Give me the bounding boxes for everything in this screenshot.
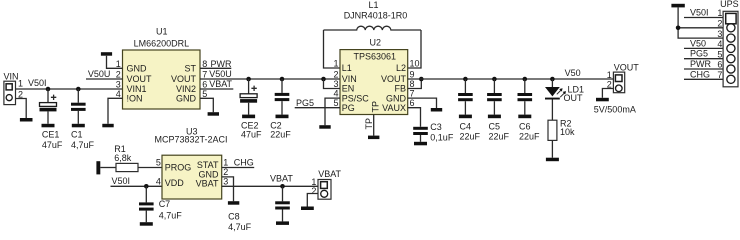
node junction UPS pin2 <box>676 26 681 31</box>
svg-text:PWR: PWR <box>211 59 232 69</box>
svg-text:VBAT: VBAT <box>270 174 293 184</box>
svg-text:8: 8 <box>202 59 207 69</box>
wire UPS pin7 stub (net CHG) <box>684 78 723 80</box>
svg-text:C7: C7 <box>159 199 171 209</box>
wire U2 pin7 GND to ground <box>408 98 437 108</box>
svg-text:0,1uF: 0,1uF <box>430 132 454 142</box>
op-amp U1 LM66200DRL power mux <box>123 27 201 110</box>
svg-text:4: 4 <box>333 88 338 98</box>
svg-text:ST: ST <box>184 64 196 74</box>
svg-text:CHG: CHG <box>234 158 254 168</box>
capacitor C1 4,7uF <box>71 89 95 150</box>
svg-text:V50I: V50I <box>28 78 47 88</box>
resistor R2 10k <box>548 100 575 158</box>
svg-text:VOUT: VOUT <box>614 62 640 72</box>
wire UPS pin6 stub (net PWR) <box>684 68 723 70</box>
svg-text:10k: 10k <box>560 127 575 137</box>
svg-text:VOUT: VOUT <box>127 74 153 84</box>
wire L1 right to U2 pin10 <box>408 30 421 68</box>
connector VIN (X1) <box>4 72 24 105</box>
node junction C7 <box>144 184 149 189</box>
svg-text:6: 6 <box>717 60 722 70</box>
svg-text:4: 4 <box>717 39 722 49</box>
op-amp U2 TPS63061 buck-boost converter <box>340 37 408 114</box>
ground (U3 pin2) <box>228 201 239 205</box>
node junction U2 VIN <box>321 77 326 82</box>
wire U1 pin5 GND to ground <box>200 98 213 112</box>
node junction C2 <box>280 77 285 82</box>
wire V50 rail U2 pin9 VOUT to VOUT connector <box>408 78 614 80</box>
wire U2 pin5 PG stub (net PG5) <box>295 107 340 109</box>
wire VOUT pin2 to ground <box>602 89 613 98</box>
svg-text:22uF: 22uF <box>519 132 540 142</box>
svg-text:PROG: PROG <box>165 163 192 173</box>
U2 pin numbers left <box>333 58 338 108</box>
wire UPS pin4 stub (net V50) <box>684 47 723 49</box>
ground (VOUT pin2) <box>596 98 609 102</box>
U3 pin numbers left <box>156 158 161 187</box>
svg-text:C5: C5 <box>489 121 501 131</box>
svg-text:OUT: OUT <box>564 93 584 103</box>
svg-text:C1: C1 <box>71 129 83 139</box>
node junction C5 <box>492 77 497 82</box>
svg-text:PG5: PG5 <box>296 98 314 108</box>
wire U3 pin3 VBAT to connector <box>222 185 318 187</box>
svg-text:VBAT: VBAT <box>209 79 232 89</box>
node junction FB/VOUT <box>419 77 424 82</box>
svg-text:V50U: V50U <box>209 69 232 79</box>
svg-text:3: 3 <box>223 176 228 186</box>
wire U1 pin2 VOUT stub (net V50U) <box>86 78 123 80</box>
svg-text:2: 2 <box>116 70 121 80</box>
wire UPS pin5 stub (net PG5) <box>684 58 723 60</box>
svg-text:22uF: 22uF <box>460 132 481 142</box>
wire U3 pin1 STAT stub (net CHG) <box>222 167 255 169</box>
svg-text:GND: GND <box>386 93 407 103</box>
capacitor CE2 47uF (polarized) <box>240 79 262 139</box>
node junction C6 <box>523 77 528 82</box>
svg-text:PG5: PG5 <box>690 49 708 59</box>
svg-text:TP: TP <box>364 118 374 130</box>
svg-text:EN: EN <box>342 84 355 94</box>
svg-text:VAUX: VAUX <box>382 103 406 113</box>
svg-text:CE1: CE1 <box>42 129 60 139</box>
svg-text:VOUT: VOUT <box>381 74 407 84</box>
svg-text:VBAT: VBAT <box>196 178 219 188</box>
U1 pin names <box>127 64 197 104</box>
svg-text:4: 4 <box>116 89 121 99</box>
svg-text:V50U: V50U <box>88 69 111 79</box>
svg-text:1: 1 <box>116 59 121 69</box>
capacitor C5 22uF <box>487 79 509 142</box>
svg-text:GND: GND <box>176 94 197 104</box>
wire VIN pin2 to ground <box>16 99 27 119</box>
U1 pin numbers left <box>116 59 121 99</box>
svg-text:VOUT: VOUT <box>171 74 197 84</box>
svg-text:7: 7 <box>717 70 722 80</box>
ground (R2) <box>546 158 559 162</box>
wire U3 pin2 GND to ground <box>222 177 234 201</box>
svg-text:5: 5 <box>717 49 722 59</box>
svg-text:1: 1 <box>333 58 338 68</box>
svg-text:2: 2 <box>717 19 722 29</box>
svg-text:3: 3 <box>717 29 722 39</box>
svg-text:C4: C4 <box>460 121 472 131</box>
ground (U1 pin1 GND, flipped up) <box>101 52 123 68</box>
wire L1 left to U2 pin1 <box>324 30 341 68</box>
svg-text:C8: C8 <box>228 211 240 221</box>
node junction LED <box>550 77 555 82</box>
svg-text:7: 7 <box>410 88 415 98</box>
svg-text:U1: U1 <box>156 27 168 37</box>
capacitor C8 4,7uF <box>228 186 290 232</box>
svg-text:2: 2 <box>333 69 338 79</box>
svg-text:C3: C3 <box>430 122 442 132</box>
wire V50U rail U1 pin7 to U2 VIN <box>200 78 340 80</box>
capacitor C6 22uF <box>518 79 541 142</box>
svg-text:2: 2 <box>311 186 316 196</box>
wire VIN pin1 to U1 VIN1 (net V50I) <box>16 88 123 90</box>
connector VOUT <box>607 62 639 92</box>
wire U2 TP pad to ground <box>373 115 375 136</box>
svg-text:5: 5 <box>333 98 338 108</box>
svg-text:GND: GND <box>127 64 148 74</box>
ground (U2 pin7) <box>431 108 442 112</box>
svg-text:4,7uF: 4,7uF <box>228 222 252 232</box>
svg-text:4: 4 <box>156 176 161 186</box>
svg-text:UPS: UPS <box>720 0 739 9</box>
op-amp U3 MCP73832T-2ACI charger <box>155 126 228 199</box>
svg-text:CHG: CHG <box>690 69 710 79</box>
resistor R1 6,8k <box>100 144 162 172</box>
ground (U1 pin4) <box>102 124 113 128</box>
svg-text:VIN: VIN <box>4 72 19 82</box>
wire UPS pin1 stub (net V50I) <box>684 17 723 19</box>
node junction CE2 <box>246 77 251 82</box>
svg-text:10: 10 <box>410 58 420 68</box>
ground (R1, sideways) <box>96 161 100 174</box>
wire U2 pin8 FB tied to VOUT <box>408 79 422 89</box>
svg-text:PS/SC: PS/SC <box>342 93 370 103</box>
U3 pin names <box>165 160 219 188</box>
ground (VIN pin2) <box>20 118 33 122</box>
connector UPS (7-pin) <box>717 0 738 87</box>
svg-text:MCP73832T-2ACI: MCP73832T-2ACI <box>155 135 228 145</box>
svg-text:V50: V50 <box>565 68 581 78</box>
svg-text:4,7uF: 4,7uF <box>159 210 183 220</box>
svg-text:V50: V50 <box>690 38 706 48</box>
ground (U2 pin4) <box>319 125 330 129</box>
capacitor C3 0,1uF <box>413 122 454 145</box>
svg-text:VDD: VDD <box>165 178 185 188</box>
svg-text:22uF: 22uF <box>270 129 291 139</box>
svg-text:3: 3 <box>333 79 338 89</box>
svg-text:PG: PG <box>342 103 355 113</box>
wire U1 pin4 !ON to ground <box>108 98 123 124</box>
svg-text:C6: C6 <box>519 121 531 131</box>
svg-text:V50I: V50I <box>112 176 131 186</box>
U1 pin numbers right <box>202 59 207 99</box>
wire U1 pin8 ST stub (net PWR) <box>200 67 231 69</box>
svg-text:8: 8 <box>410 79 415 89</box>
svg-text:4,7uF: 4,7uF <box>71 140 95 150</box>
svg-text:47uF: 47uF <box>42 140 63 150</box>
svg-text:DJNR4018-1R0: DJNR4018-1R0 <box>344 11 408 21</box>
node junction C1 <box>76 87 81 92</box>
U2 pin names <box>342 63 407 113</box>
node junction CE1 <box>46 87 51 92</box>
ground (VBAT pin2) <box>301 207 314 211</box>
svg-text:VBAT: VBAT <box>318 169 341 179</box>
wire U2 pin4 PS/SC to ground <box>325 98 340 125</box>
U2 pin numbers right <box>410 58 420 108</box>
node junction C8 <box>280 184 285 189</box>
ground (UPS pins 2,3) <box>671 4 684 8</box>
svg-text:!ON: !ON <box>127 94 143 104</box>
svg-text:TP: TP <box>371 101 381 113</box>
wire U2 pin6 VAUX to C3 <box>408 108 421 127</box>
wire V50I stub to U3 VDD <box>111 185 163 187</box>
svg-text:PWR: PWR <box>690 59 711 69</box>
LED LD1 <box>545 79 584 103</box>
svg-text:5: 5 <box>202 89 207 99</box>
svg-text:V50I: V50I <box>690 8 709 18</box>
ground (U2 TP) <box>368 136 379 140</box>
svg-text:7: 7 <box>202 70 207 80</box>
svg-text:U2: U2 <box>370 37 382 47</box>
capacitor C2 22uF <box>270 79 291 139</box>
svg-text:L1: L1 <box>342 63 352 73</box>
capacitor CE1 47uF (polarized) <box>40 89 63 150</box>
capacitor C4 22uF <box>458 79 480 142</box>
svg-text:5V/500mA: 5V/500mA <box>594 104 636 114</box>
connector VBAT <box>311 169 341 199</box>
svg-text:FB: FB <box>394 84 406 94</box>
svg-text:1: 1 <box>717 8 722 18</box>
svg-text:47uF: 47uF <box>241 129 262 139</box>
inductor L1 DJNR4018-1R0 <box>324 0 422 30</box>
svg-text:5: 5 <box>156 158 161 168</box>
node junction C4 <box>463 77 468 82</box>
svg-text:9: 9 <box>410 69 415 79</box>
svg-text:6: 6 <box>410 98 415 108</box>
svg-text:L2: L2 <box>396 63 406 73</box>
svg-text:LM66200DRL: LM66200DRL <box>134 39 190 49</box>
svg-text:22uF: 22uF <box>489 132 510 142</box>
svg-text:TPS63061: TPS63061 <box>354 52 397 62</box>
svg-text:L1: L1 <box>369 0 379 10</box>
wire U1 pin6 VIN2 stub (net VBAT) <box>200 88 233 90</box>
svg-text:1: 1 <box>18 79 23 89</box>
wire U2 pin3 EN tied to VIN <box>324 79 341 89</box>
ground (U1 pin5) <box>208 112 219 116</box>
svg-text:VIN: VIN <box>342 74 357 84</box>
svg-text:6,8k: 6,8k <box>114 153 132 163</box>
wire UPS ground to pins 2,3 <box>678 7 723 38</box>
wire VBAT pin2 to ground <box>307 194 318 207</box>
capacitor C7 4,7uF <box>139 186 182 225</box>
U3 pin numbers right <box>223 158 228 187</box>
